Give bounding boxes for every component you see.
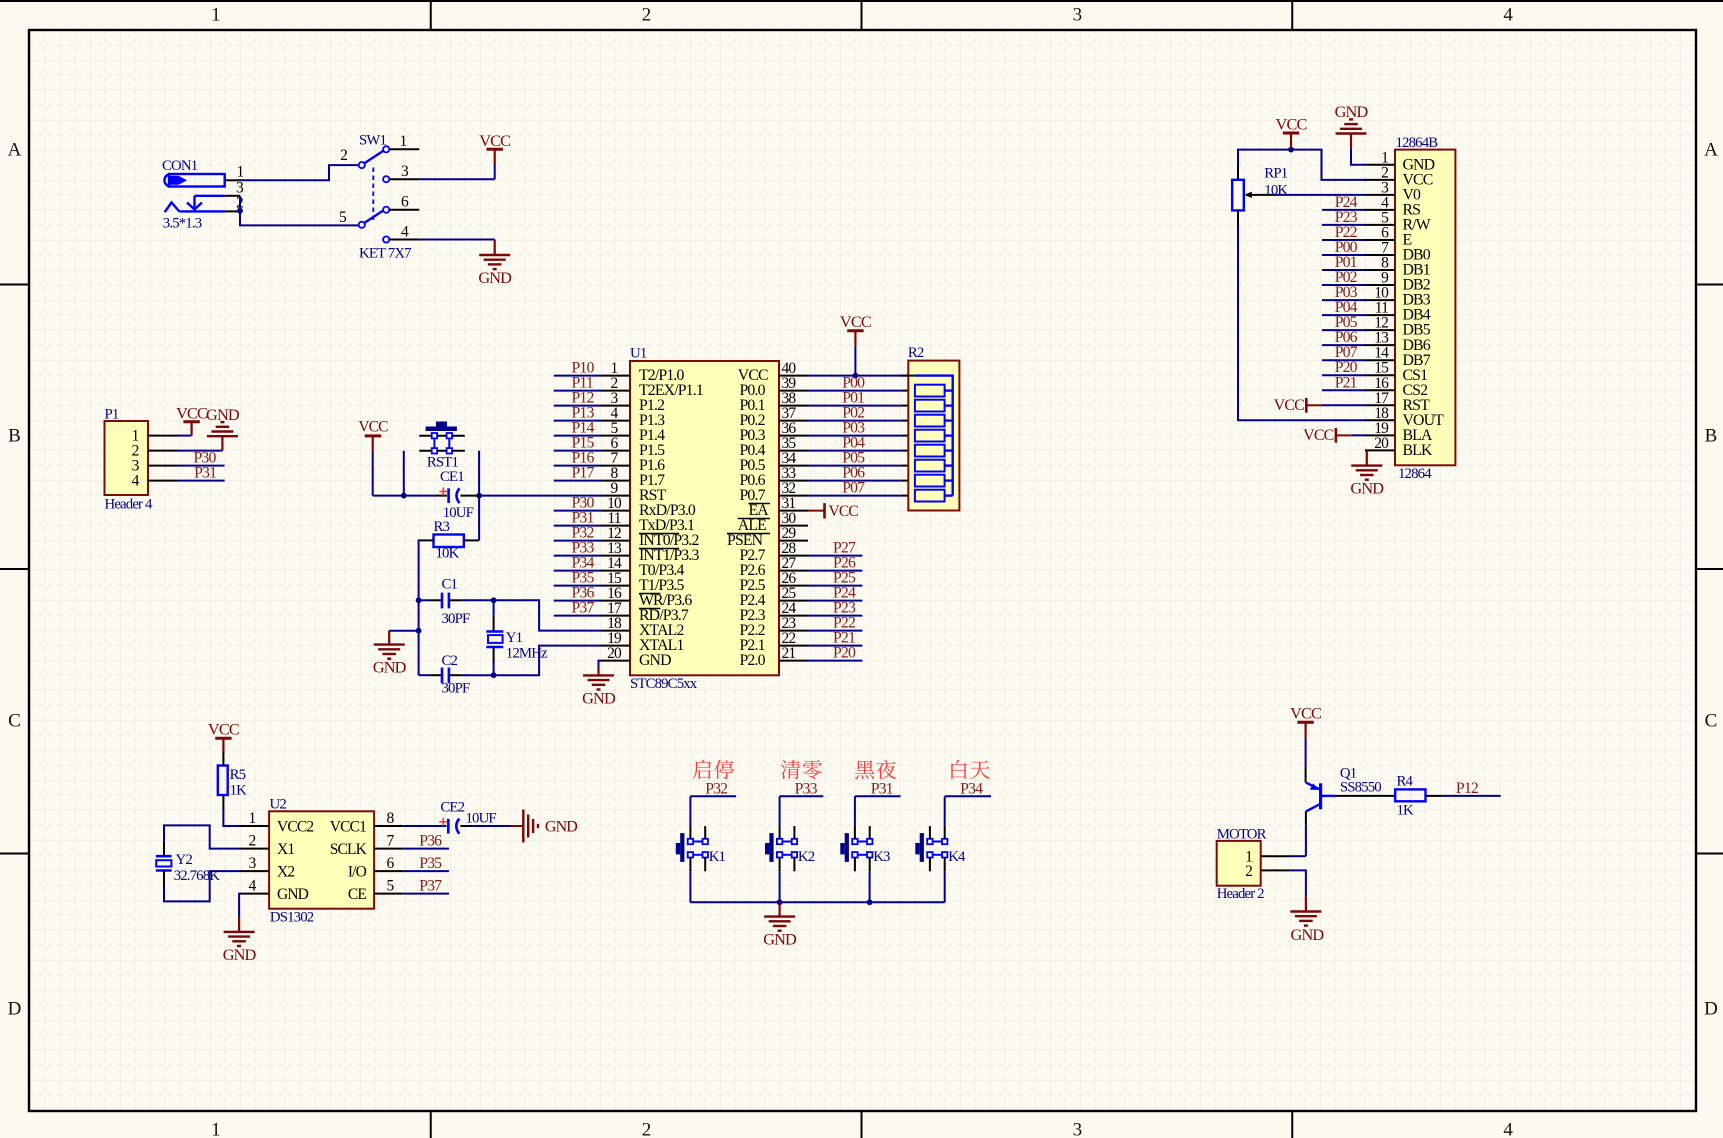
svg-text:20: 20 xyxy=(1374,435,1389,452)
svg-text:P21: P21 xyxy=(1335,374,1357,391)
svg-text:K2: K2 xyxy=(798,849,815,865)
svg-text:D: D xyxy=(1704,999,1717,1020)
svg-text:P2.5: P2.5 xyxy=(740,577,766,594)
svg-text:GND: GND xyxy=(545,819,577,836)
svg-text:C2: C2 xyxy=(442,653,458,669)
svg-text:MOTOR: MOTOR xyxy=(1217,826,1267,842)
svg-text:GND: GND xyxy=(206,405,240,424)
svg-text:CE1: CE1 xyxy=(440,469,464,485)
svg-text:X1: X1 xyxy=(277,841,294,858)
svg-text:2: 2 xyxy=(642,1120,651,1138)
svg-text:DS1302: DS1302 xyxy=(270,910,314,926)
svg-text:VCC1: VCC1 xyxy=(330,819,366,836)
svg-text:STC89C5xx: STC89C5xx xyxy=(630,676,698,692)
svg-text:GND: GND xyxy=(223,945,257,964)
svg-text:GND: GND xyxy=(763,930,797,949)
svg-text:K3: K3 xyxy=(873,849,890,865)
svg-text:P2.2: P2.2 xyxy=(740,622,766,639)
svg-text:5: 5 xyxy=(387,878,395,895)
svg-text:33: 33 xyxy=(782,465,797,482)
svg-text:SW1: SW1 xyxy=(359,133,386,149)
svg-text:1: 1 xyxy=(400,133,407,150)
svg-text:GND: GND xyxy=(582,689,616,708)
svg-text:Header 2: Header 2 xyxy=(1217,886,1264,902)
svg-text:VCC2: VCC2 xyxy=(277,819,313,836)
svg-text:P31: P31 xyxy=(871,780,893,797)
svg-text:8: 8 xyxy=(387,810,395,827)
svg-text:5: 5 xyxy=(339,209,347,226)
svg-text:40: 40 xyxy=(782,360,797,377)
svg-text:VCC: VCC xyxy=(1303,427,1334,444)
svg-text:P36: P36 xyxy=(419,833,442,850)
svg-text:22: 22 xyxy=(782,630,796,647)
svg-text:U2: U2 xyxy=(270,796,287,812)
svg-text:27: 27 xyxy=(782,555,797,572)
svg-text:1: 1 xyxy=(211,1120,220,1138)
svg-text:P2.3: P2.3 xyxy=(740,607,766,624)
svg-text:Y1: Y1 xyxy=(506,630,523,646)
svg-text:1K: 1K xyxy=(230,783,248,799)
svg-text:BLK: BLK xyxy=(1403,442,1433,459)
svg-text:3: 3 xyxy=(249,855,257,872)
svg-text:I/O: I/O xyxy=(348,864,367,881)
svg-text:3: 3 xyxy=(401,163,409,180)
svg-text:10UF: 10UF xyxy=(466,811,497,827)
svg-text:30PF: 30PF xyxy=(442,611,470,627)
svg-text:4: 4 xyxy=(1503,5,1513,26)
svg-text:36: 36 xyxy=(782,420,797,437)
svg-text:10K: 10K xyxy=(1264,183,1288,199)
svg-text:2: 2 xyxy=(642,5,651,26)
svg-text:23: 23 xyxy=(782,615,797,632)
svg-text:3: 3 xyxy=(1073,1120,1082,1138)
svg-text:CE: CE xyxy=(348,886,366,903)
svg-text:1K: 1K xyxy=(1397,802,1415,818)
svg-text:B: B xyxy=(1705,426,1717,447)
svg-text:1: 1 xyxy=(211,5,220,26)
svg-text:K4: K4 xyxy=(948,849,966,865)
svg-text:P2.4: P2.4 xyxy=(740,592,766,609)
svg-text:VCC: VCC xyxy=(358,419,388,436)
svg-text:Header 4: Header 4 xyxy=(105,497,153,513)
svg-text:GND: GND xyxy=(277,886,309,903)
svg-text:25: 25 xyxy=(782,585,797,602)
svg-text:30: 30 xyxy=(782,510,797,527)
svg-text:P37: P37 xyxy=(572,600,595,617)
svg-text:20: 20 xyxy=(607,645,622,662)
svg-text:P33: P33 xyxy=(795,780,818,797)
svg-text:VCC: VCC xyxy=(1276,115,1307,134)
svg-text:26: 26 xyxy=(782,570,797,587)
svg-text:P2.0: P2.0 xyxy=(740,652,766,669)
svg-text:C1: C1 xyxy=(442,577,458,593)
svg-text:P0.1: P0.1 xyxy=(740,397,765,414)
svg-text:P2.7: P2.7 xyxy=(740,547,766,564)
svg-text:SCLK: SCLK xyxy=(330,841,368,858)
svg-text:31: 31 xyxy=(782,495,796,512)
svg-text:2: 2 xyxy=(340,147,347,164)
svg-text:VCC: VCC xyxy=(176,403,207,422)
svg-text:CE2: CE2 xyxy=(440,799,464,815)
svg-text:4: 4 xyxy=(401,223,409,240)
svg-text:GND: GND xyxy=(1291,925,1325,944)
svg-text:P32: P32 xyxy=(705,780,728,797)
svg-text:R3: R3 xyxy=(434,519,450,535)
svg-text:P20: P20 xyxy=(833,645,856,662)
svg-text:C: C xyxy=(8,711,20,732)
svg-text:1: 1 xyxy=(249,810,256,827)
svg-text:A: A xyxy=(8,140,22,161)
svg-text:RP1: RP1 xyxy=(1264,166,1287,182)
svg-text:6: 6 xyxy=(401,194,409,211)
svg-text:P07: P07 xyxy=(842,480,865,497)
svg-text:34: 34 xyxy=(782,450,797,467)
svg-text:37: 37 xyxy=(782,405,797,422)
svg-text:P0.4: P0.4 xyxy=(740,442,766,459)
svg-text:P0.2: P0.2 xyxy=(740,412,766,429)
svg-text:12864B: 12864B xyxy=(1396,135,1439,151)
svg-text:VCC: VCC xyxy=(208,720,239,739)
svg-text:32: 32 xyxy=(782,480,796,497)
svg-text:24: 24 xyxy=(782,600,797,617)
svg-text:P37: P37 xyxy=(419,878,442,895)
svg-text:P17: P17 xyxy=(572,465,595,482)
svg-text:SS8550: SS8550 xyxy=(1340,779,1381,795)
svg-text:2: 2 xyxy=(249,833,256,850)
svg-text:28: 28 xyxy=(782,540,797,557)
svg-text:Y2: Y2 xyxy=(176,852,193,868)
svg-text:PSEN: PSEN xyxy=(727,532,764,549)
svg-text:P0.7: P0.7 xyxy=(740,487,766,504)
svg-text:D: D xyxy=(8,999,21,1020)
svg-text:VCC: VCC xyxy=(1274,397,1305,414)
svg-text:P31: P31 xyxy=(194,465,216,482)
svg-text:VCC: VCC xyxy=(840,312,871,331)
svg-text:35: 35 xyxy=(782,435,797,452)
svg-text:P0.5: P0.5 xyxy=(740,457,766,474)
svg-text:EA: EA xyxy=(749,502,770,519)
svg-text:P12: P12 xyxy=(1456,780,1479,797)
svg-text:K1: K1 xyxy=(709,849,726,865)
svg-text:GND: GND xyxy=(1350,479,1384,498)
svg-text:C: C xyxy=(1705,711,1717,732)
svg-text:GND: GND xyxy=(373,658,407,677)
svg-text:29: 29 xyxy=(782,525,797,542)
svg-text:10K: 10K xyxy=(436,546,460,562)
svg-text:4: 4 xyxy=(249,878,257,895)
svg-text:VCC: VCC xyxy=(738,367,768,384)
svg-text:P0.6: P0.6 xyxy=(740,472,766,489)
svg-text:P0.0: P0.0 xyxy=(740,382,766,399)
svg-text:R4: R4 xyxy=(1397,773,1414,789)
svg-text:X2: X2 xyxy=(277,864,294,881)
svg-text:P0.3: P0.3 xyxy=(740,427,766,444)
svg-text:7: 7 xyxy=(387,833,395,850)
svg-text:ALE: ALE xyxy=(738,517,766,534)
svg-text:4: 4 xyxy=(1503,1120,1513,1138)
svg-text:VCC: VCC xyxy=(829,503,859,520)
svg-text:GND: GND xyxy=(478,268,512,287)
svg-text:12864: 12864 xyxy=(1398,466,1432,482)
svg-text:KET 7X7: KET 7X7 xyxy=(359,246,411,262)
svg-text:P1: P1 xyxy=(105,406,119,422)
svg-text:VCC: VCC xyxy=(1290,704,1321,723)
svg-text:P2.6: P2.6 xyxy=(740,562,766,579)
svg-text:21: 21 xyxy=(782,645,796,662)
svg-text:4: 4 xyxy=(131,473,139,490)
svg-text:VCC: VCC xyxy=(479,131,510,150)
svg-text:3.5*1.3: 3.5*1.3 xyxy=(163,215,202,231)
svg-text:P35: P35 xyxy=(419,855,442,872)
svg-text:3: 3 xyxy=(1073,5,1082,26)
svg-text:2: 2 xyxy=(1245,863,1252,880)
svg-text:R2: R2 xyxy=(908,345,924,361)
svg-text:A: A xyxy=(1704,140,1718,161)
svg-text:6: 6 xyxy=(387,855,395,872)
svg-text:30PF: 30PF xyxy=(442,681,470,697)
svg-text:R5: R5 xyxy=(230,767,246,783)
svg-text:1: 1 xyxy=(237,164,244,181)
svg-text:P34: P34 xyxy=(960,780,983,797)
svg-text:B: B xyxy=(8,426,20,447)
svg-text:P2.1: P2.1 xyxy=(740,637,765,654)
svg-text:38: 38 xyxy=(782,390,797,407)
svg-text:U1: U1 xyxy=(630,345,647,361)
svg-text:GND: GND xyxy=(1335,102,1369,121)
svg-text:12MHz: 12MHz xyxy=(506,646,548,662)
svg-text:CON1: CON1 xyxy=(162,158,198,174)
svg-text:GND: GND xyxy=(639,652,671,669)
svg-text:39: 39 xyxy=(782,375,797,392)
